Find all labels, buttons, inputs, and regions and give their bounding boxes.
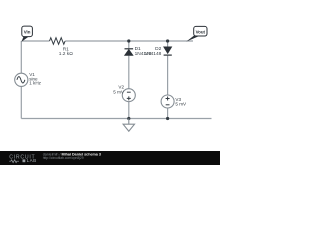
source V2 (5 mV, minus on top) (113, 85, 135, 102)
ground (123, 119, 134, 132)
wire: D2/V3 branch segments (167, 41, 169, 119)
wire: left branch vertical (Vin corner down to V1 top) (20, 41, 22, 73)
resistor R1 (50, 38, 66, 45)
node: junction dot D2 top (166, 39, 169, 42)
svg-text:5 mV: 5 mV (113, 90, 125, 95)
wire: bottom rail (21, 118, 211, 120)
svg-text:http://circuitlab.com/cpn8j29: http://circuitlab.com/cpn8j29 (43, 156, 84, 160)
node: junction dot V3 bottom (166, 117, 169, 120)
svg-text:LAB: LAB (27, 158, 37, 163)
svg-text:1.2 kΩ: 1.2 kΩ (59, 51, 73, 57)
wire: V1 bottom to bottom rail (20, 86, 22, 118)
svg-text:1 kHz: 1 kHz (29, 80, 41, 85)
node: junction dot D1 top (127, 39, 130, 42)
footer bar (0, 151, 220, 165)
svg-text:5 mV: 5 mV (175, 102, 187, 107)
svg-text:Vin: Vin (24, 30, 31, 35)
source V1 (sine) (15, 72, 42, 86)
node Vout flag (186, 26, 207, 41)
source V3 (5 mV, plus on top) (161, 95, 187, 108)
diode D2 (pointing down) (144, 46, 171, 57)
wire: D1/V2 branch segments (128, 41, 130, 119)
diode D1 (pointing up) (125, 46, 152, 57)
wire: top rail from Vin corner to Vout (22, 40, 194, 42)
svg-text:Vout: Vout (196, 29, 206, 34)
node Vin flag (22, 26, 33, 42)
node: junction dot V2 bottom (127, 117, 130, 120)
svg-text:1N4148: 1N4148 (144, 51, 161, 57)
